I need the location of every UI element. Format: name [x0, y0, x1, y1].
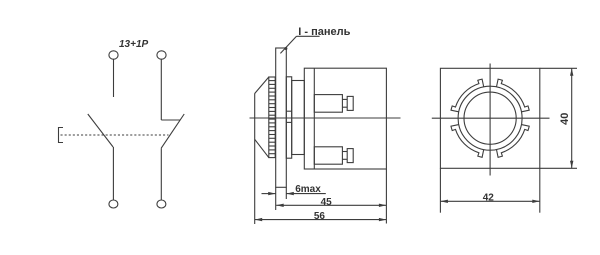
svg-text:40: 40 [559, 113, 571, 125]
svg-text:45: 45 [321, 197, 333, 208]
svg-text:I - панель: I - панель [298, 26, 350, 38]
svg-text:13+1P: 13+1P [119, 39, 149, 50]
svg-text:42: 42 [483, 192, 495, 203]
svg-text:56: 56 [314, 211, 326, 222]
svg-text:6max: 6max [295, 184, 321, 195]
